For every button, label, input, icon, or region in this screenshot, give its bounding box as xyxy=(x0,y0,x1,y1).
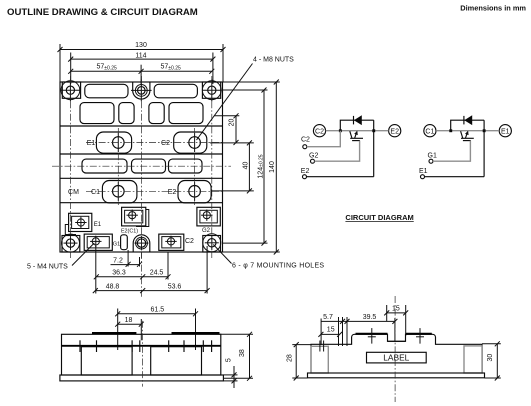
dim 48.8 xyxy=(93,283,145,293)
dim 36.3 xyxy=(94,270,145,280)
side bump top left bar xyxy=(356,333,388,335)
svg-text:OUTLINE DRAWING & CIRCUIT DIAG: OUTLINE DRAWING & CIRCUIT DIAGRAM xyxy=(7,7,198,18)
node at collector right xyxy=(449,129,452,132)
leader 5 - M4 NUTS xyxy=(27,243,94,271)
terminal pad C2 xyxy=(174,132,207,153)
aux terminal E2 xyxy=(301,168,310,179)
aux terminal C2 xyxy=(301,137,310,149)
slot row2 wide-right xyxy=(169,103,203,124)
svg-text:38: 38 xyxy=(239,349,246,357)
terminal pad C1 xyxy=(102,181,136,203)
svg-text:E1: E1 xyxy=(419,168,428,175)
svg-text:C2: C2 xyxy=(161,140,170,147)
diode D1 xyxy=(464,116,472,125)
svg-text:4 - M8 NUTS: 4 - M8 NUTS xyxy=(253,57,294,64)
centerline vertical left holes xyxy=(70,76,72,258)
terminal C1 xyxy=(424,125,436,137)
hole top-right xyxy=(203,80,222,102)
bottom-center tab xyxy=(133,235,150,252)
svg-text:LABEL: LABEL xyxy=(383,353,409,363)
terminal C1 screw xyxy=(113,182,125,201)
svg-text:15: 15 xyxy=(392,306,400,313)
svg-text:C1: C1 xyxy=(91,189,100,196)
dim 28 xyxy=(287,342,311,380)
svg-text:7.2: 7.2 xyxy=(113,257,123,264)
terminal C2 screw xyxy=(189,133,201,152)
dim 5 (baseplate) xyxy=(223,358,237,388)
svg-text:E1: E1 xyxy=(87,140,96,147)
bottom-left mounting tab xyxy=(62,234,80,252)
side centerline xyxy=(394,296,396,402)
dim 15 lower xyxy=(318,327,342,337)
gate block E1aux xyxy=(65,213,92,234)
svg-text:G1: G1 xyxy=(113,241,120,247)
terminal E2 screw xyxy=(189,182,201,201)
top-center tab xyxy=(133,82,150,99)
dim 140 xyxy=(223,80,280,255)
dim 57+-0.25 right xyxy=(141,64,214,74)
side bump tick left xyxy=(368,328,376,344)
IGBT Q2 xyxy=(350,131,363,141)
gate block G1 xyxy=(84,234,112,250)
top-left mounting tab xyxy=(61,81,81,100)
svg-text:40: 40 xyxy=(243,162,250,170)
dim 130 xyxy=(58,42,226,82)
svg-text:30: 30 xyxy=(487,354,494,362)
wire C2aux xyxy=(307,131,341,147)
dim 57+-0.25 left xyxy=(68,64,143,84)
dim 30 xyxy=(482,341,501,380)
svg-text:C1: C1 xyxy=(425,129,434,136)
centerline vertical E1/C1 column xyxy=(117,128,119,205)
front inner block left xyxy=(81,347,132,375)
svg-text:39.5: 39.5 xyxy=(363,314,377,321)
wire C1-E1 rail xyxy=(436,130,499,132)
terminal pad E1 xyxy=(96,132,131,153)
gate block C2aux xyxy=(159,234,184,250)
dim 24.5 xyxy=(143,252,171,280)
node at collector xyxy=(339,129,342,132)
wire emitter drop xyxy=(373,120,375,177)
aux terminal G1 xyxy=(428,153,437,164)
front body xyxy=(62,334,221,375)
front bump left xyxy=(92,332,136,335)
svg-text:24.5: 24.5 xyxy=(150,270,164,277)
svg-text:E2(C1): E2(C1) xyxy=(121,229,138,235)
slot row2 narrow-right xyxy=(149,103,164,124)
hole bottom-right xyxy=(205,236,219,250)
svg-text:5 - M4 NUTS: 5 - M4 NUTS xyxy=(27,264,68,271)
svg-text:C2: C2 xyxy=(301,137,310,144)
band2 line bottom xyxy=(60,202,223,204)
svg-text:57±0.25: 57±0.25 xyxy=(161,64,181,72)
center slot middle xyxy=(132,159,166,173)
centerline bottom center xyxy=(141,252,143,297)
svg-text:5: 5 xyxy=(225,358,232,362)
svg-text:114: 114 xyxy=(135,52,146,59)
side bump tick right xyxy=(416,328,424,344)
band2 line top xyxy=(60,177,223,179)
hole top-center xyxy=(131,80,152,102)
leader 6 - MOUNTING HOLES xyxy=(213,245,324,270)
side notch floor bar xyxy=(388,340,406,342)
dim 53.6 xyxy=(143,246,210,294)
aux terminal E1 xyxy=(419,168,428,179)
svg-text:G2: G2 xyxy=(309,153,318,160)
side right cap xyxy=(464,346,482,373)
dim 124+-0.25 xyxy=(223,88,268,246)
wire G2 xyxy=(315,141,360,162)
dim 61.5 xyxy=(115,307,198,350)
front inner block right xyxy=(151,347,202,375)
svg-text:CIRCUIT DIAGRAM: CIRCUIT DIAGRAM xyxy=(345,213,413,222)
centerline horizontal C1-E2 xyxy=(86,190,222,192)
leader 4 - M8 NUTS xyxy=(197,57,295,141)
aux terminal G2 xyxy=(309,153,318,164)
svg-text:6 - φ 7 MOUNTING HOLES: 6 - φ 7 MOUNTING HOLES xyxy=(232,263,324,270)
slot row2 narrow-left xyxy=(119,103,134,124)
svg-text:E2: E2 xyxy=(390,129,399,136)
node at emitter right xyxy=(483,129,486,132)
svg-text:20: 20 xyxy=(228,119,235,127)
svg-text:124±0.25: 124±0.25 xyxy=(257,154,264,178)
hole bottom-center xyxy=(135,236,149,250)
dim 20 xyxy=(214,113,239,145)
svg-text:G2: G2 xyxy=(202,228,211,234)
side bump top right bar xyxy=(406,333,432,335)
top-right mounting tab xyxy=(202,81,221,100)
small slot bottom xyxy=(121,235,128,250)
dim 38 xyxy=(210,332,253,381)
svg-text:53.6: 53.6 xyxy=(168,283,182,290)
svg-text:140: 140 xyxy=(269,161,276,173)
svg-text:Dimensions in mm: Dimensions in mm xyxy=(460,4,526,13)
wire diode branch top right xyxy=(451,120,484,131)
front screw ticks xyxy=(80,340,212,352)
svg-text:G1: G1 xyxy=(428,153,437,160)
dim 40 xyxy=(210,140,254,193)
front centerline xyxy=(141,321,143,387)
svg-text:36.3: 36.3 xyxy=(112,270,126,277)
terminal E1 xyxy=(499,125,511,137)
svg-text:C2: C2 xyxy=(185,238,194,245)
center slot right xyxy=(169,159,203,173)
body outline xyxy=(60,82,223,252)
front baseplate xyxy=(60,375,224,381)
wire E2 xyxy=(307,176,374,178)
slot row2 wide-left xyxy=(80,103,114,124)
svg-text:CM: CM xyxy=(68,189,79,196)
bottom-right mounting tab xyxy=(203,234,221,252)
side left cap xyxy=(311,346,328,373)
svg-text:130: 130 xyxy=(135,42,147,49)
front bump right xyxy=(172,332,220,335)
svg-text:E1: E1 xyxy=(501,129,510,136)
center slot left xyxy=(82,159,127,173)
band line bottom xyxy=(60,153,223,155)
wire C2-E2 rail xyxy=(326,130,389,132)
dim 5.7 and 39.5 xyxy=(321,314,397,346)
dim 114 xyxy=(68,52,215,84)
wire E1 xyxy=(425,176,485,178)
svg-text:E2: E2 xyxy=(168,189,177,196)
svg-text:28: 28 xyxy=(287,354,294,362)
wire diode branch top xyxy=(340,120,373,131)
hole top-left xyxy=(62,80,81,102)
terminal C2 xyxy=(313,125,325,137)
centerline horizontal middle xyxy=(52,165,231,167)
centerline vertical C2/E2 column xyxy=(194,128,196,205)
svg-text:E2: E2 xyxy=(301,168,310,175)
top slot right xyxy=(154,84,197,98)
dim 18 xyxy=(115,317,144,340)
IGBT Q1 xyxy=(461,131,474,141)
dim 15 top xyxy=(384,305,408,336)
node at emitter xyxy=(372,129,375,132)
LABEL box xyxy=(367,352,427,363)
centerline horizontal E1-C2 xyxy=(86,142,222,144)
svg-text:5.7: 5.7 xyxy=(323,314,333,321)
svg-text:61.5: 61.5 xyxy=(150,307,164,314)
wire G1 xyxy=(433,141,470,162)
top slot left xyxy=(85,84,128,98)
gate block G2 xyxy=(197,207,220,226)
terminal E2 xyxy=(389,125,401,137)
side screw ticks left xyxy=(320,341,324,352)
diode D2 xyxy=(354,116,362,125)
dim 7.2 xyxy=(96,246,142,294)
svg-text:18: 18 xyxy=(125,317,133,324)
svg-text:E1: E1 xyxy=(94,222,102,228)
gate block E2C1 xyxy=(122,207,149,226)
side body outline xyxy=(311,334,482,373)
hole bottom-left xyxy=(64,236,78,250)
centerline vertical center xyxy=(141,76,143,258)
svg-text:57±0.25: 57±0.25 xyxy=(97,64,117,72)
terminal pad E2 xyxy=(178,181,211,203)
band line top xyxy=(60,125,223,127)
side baseplate xyxy=(308,373,485,378)
front terminal line xyxy=(62,345,221,347)
wire emitter drop right xyxy=(483,120,485,177)
svg-text:48.8: 48.8 xyxy=(106,283,120,290)
terminal E1 screw xyxy=(113,133,125,152)
centerline vertical right holes xyxy=(211,76,213,258)
svg-text:15: 15 xyxy=(327,327,335,334)
svg-text:C2: C2 xyxy=(315,129,324,136)
